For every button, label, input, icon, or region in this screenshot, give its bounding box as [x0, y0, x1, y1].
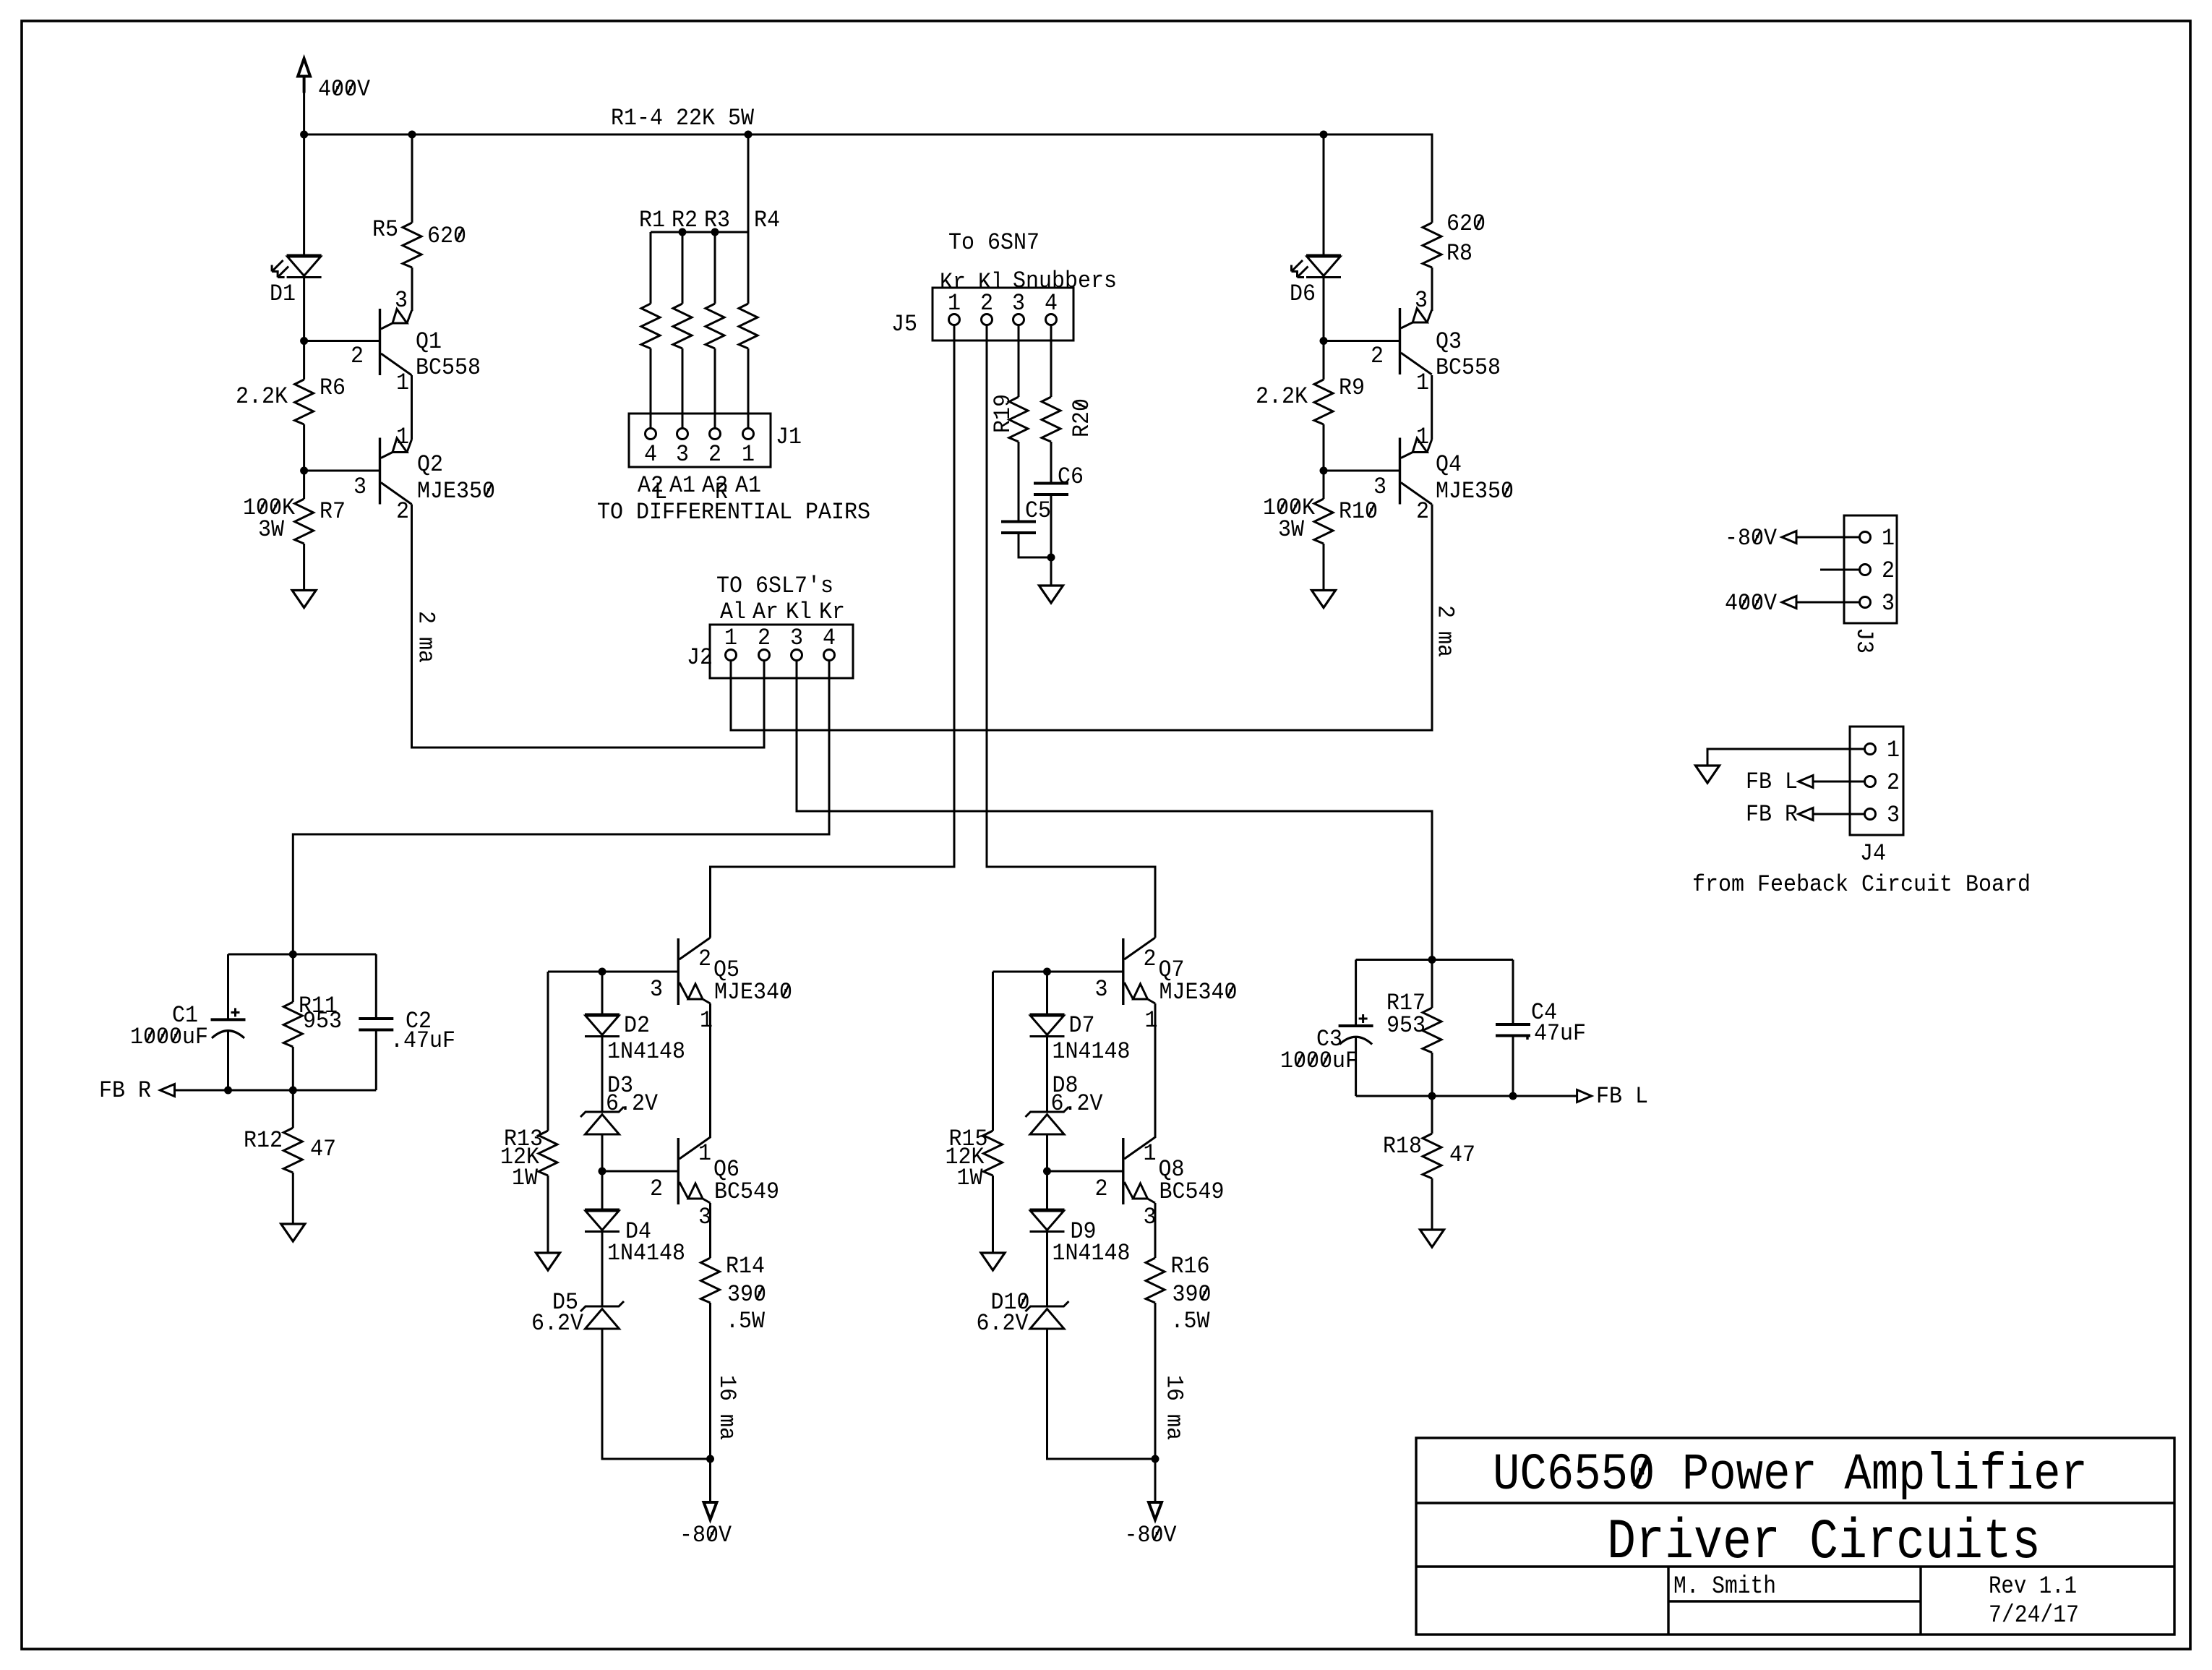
node rail-R3: [711, 228, 719, 236]
svg-text:2: 2: [698, 946, 711, 972]
svg-text:1W: 1W: [512, 1165, 539, 1191]
D7 designator: [1069, 1012, 1095, 1039]
resistor R13 with leads: [539, 972, 557, 1253]
wire R10-ground: [1323, 544, 1325, 591]
R7 value 100K: [243, 494, 296, 521]
wire R6 bottom lead: [303, 424, 305, 471]
wire R7-ground: [303, 544, 305, 591]
R6 designator: [320, 374, 346, 401]
svg-text:R4: R4: [754, 207, 780, 234]
svg-text:6.2V: 6.2V: [977, 1310, 1029, 1337]
J3 pin number 1: [1882, 525, 1895, 552]
svg-text:.47uF: .47uF: [390, 1027, 455, 1054]
wire +400V bus: [304, 93, 1432, 223]
svg-text:2: 2: [1144, 946, 1157, 972]
16 ma label left: [713, 1375, 740, 1440]
svg-text:1N4148: 1N4148: [607, 1240, 685, 1267]
Q8 pin 3: [1144, 1204, 1157, 1230]
R12 value 47: [310, 1136, 336, 1162]
svg-text:2: 2: [1095, 1176, 1108, 1202]
node Q5 base: [599, 968, 606, 976]
J1 pin number 3: [676, 441, 689, 468]
transistor Q7: [1123, 938, 1155, 1005]
FB R arrow: [160, 1084, 175, 1097]
ground below R15: [981, 1253, 1005, 1270]
Q6 pin 3: [698, 1204, 711, 1230]
R8 designator: [1446, 240, 1472, 267]
J3 pin number 3: [1882, 590, 1895, 617]
svg-text:2: 2: [1887, 769, 1900, 796]
svg-text:R7: R7: [320, 498, 346, 525]
svg-text:R16: R16: [1171, 1253, 1210, 1280]
wire D3-junction: [601, 1134, 604, 1171]
R14 wattage .5W: [726, 1308, 766, 1335]
node bus-D6: [1320, 131, 1328, 139]
wire C4 bottom lead: [1512, 1036, 1514, 1097]
svg-text:D6: D6: [1290, 281, 1316, 307]
svg-text:.5W: .5W: [726, 1308, 766, 1335]
FB L net label: [1596, 1083, 1648, 1110]
wire R10 top lead: [1323, 471, 1325, 499]
Q3 designator: [1436, 328, 1462, 355]
capacitor C1 polarized: [211, 1008, 246, 1038]
svg-text:Snubbers: Snubbers: [1013, 267, 1117, 294]
Q4 pin 2: [1416, 498, 1429, 525]
svg-text:4: 4: [823, 625, 836, 651]
wire C6 bottom: [1050, 494, 1053, 586]
Q7 part MJE340: [1159, 979, 1238, 1006]
J2 pin number 1: [724, 625, 737, 651]
R16 wattage .5W: [1171, 1308, 1211, 1335]
J5 designator: [891, 311, 917, 338]
svg-text:47: 47: [310, 1136, 336, 1162]
Q5 pin 1: [700, 1007, 713, 1034]
D3 designator: [607, 1072, 633, 1099]
D10 value 6.2V: [977, 1310, 1029, 1337]
2 ma label left: [413, 611, 440, 663]
svg-text:3: 3: [650, 976, 663, 1003]
wire R9 top lead: [1323, 341, 1325, 380]
svg-text:J2: J2: [687, 644, 713, 671]
R16 value 390: [1173, 1281, 1212, 1308]
-80V net label: [1725, 525, 1778, 552]
wire C4 top lead: [1512, 960, 1514, 1025]
Q3 part BC558: [1436, 354, 1501, 381]
svg-text:R3: R3: [704, 207, 730, 234]
wire Q3 collector - Q4 emitter: [1431, 375, 1433, 440]
svg-text:2.2K: 2.2K: [1256, 383, 1308, 410]
svg-text:R19: R19: [990, 394, 1016, 433]
wire R7 top lead: [303, 471, 305, 499]
R4 designator: [754, 207, 780, 234]
svg-text:2.2K: 2.2K: [236, 383, 288, 410]
C5 designator: [1025, 497, 1051, 524]
zener D3: [580, 1107, 624, 1134]
J1 R label: [715, 479, 728, 505]
J4 pin number 2: [1887, 769, 1900, 796]
node rail-R2: [679, 228, 687, 236]
Q5 part MJE340: [714, 979, 792, 1006]
svg-text:953: 953: [303, 1008, 342, 1035]
node C4-rail: [1509, 1092, 1517, 1100]
svg-text:16 ma: 16 ma: [1161, 1375, 1188, 1440]
LED D1: [272, 255, 322, 278]
transistor Q8: [1123, 1137, 1155, 1204]
title block frame: [1416, 1438, 2174, 1635]
svg-text:3W: 3W: [258, 516, 285, 543]
R20 designator: [1068, 398, 1095, 437]
R9 designator: [1339, 374, 1365, 401]
-80V arrow at J3 pin1: [1782, 531, 1860, 544]
resistor R6: [295, 380, 314, 424]
R6 value 2.2K: [236, 383, 288, 410]
wire J3 pin2 stub: [1820, 569, 1860, 571]
D5 designator: [552, 1289, 578, 1316]
R10 designator: [1339, 498, 1378, 525]
diode D7: [1030, 1014, 1065, 1037]
J1 pin number 4: [644, 441, 657, 468]
C4 designator: [1531, 999, 1557, 1026]
svg-text:J3: J3: [1851, 628, 1877, 654]
J2 designator: [687, 644, 713, 671]
R19 designator: [990, 394, 1016, 433]
svg-text:Rev 1.1: Rev 1.1: [1989, 1573, 2077, 1601]
C1 value 1000uF: [130, 1024, 208, 1050]
svg-text:A1: A1: [669, 472, 695, 499]
J1 L label: [654, 479, 667, 505]
D10 designator: [991, 1289, 1030, 1316]
connector J2: [710, 625, 853, 678]
FB R net label: [1746, 801, 1798, 828]
svg-text:620: 620: [1446, 210, 1486, 237]
svg-text:R8: R8: [1446, 240, 1472, 267]
svg-text:UC6550 Power Amplifier: UC6550 Power Amplifier: [1493, 1447, 2088, 1504]
ground below R7: [292, 591, 316, 608]
R13 designator: [504, 1126, 543, 1152]
Q2 pin 3: [353, 474, 366, 500]
FB L arrow: [1577, 1090, 1592, 1102]
D6 designator: [1290, 281, 1316, 307]
svg-text:2: 2: [1882, 557, 1895, 584]
resistor R12: [283, 1128, 302, 1173]
wire Q2 base: [304, 470, 379, 472]
wire C1 bottom lead: [227, 1029, 229, 1090]
Q6 part BC549: [714, 1178, 779, 1205]
svg-text:To 6SN7: To 6SN7: [948, 229, 1039, 256]
svg-text:2 ma: 2 ma: [413, 611, 440, 663]
svg-text:4: 4: [1045, 290, 1058, 317]
ground below snubbers: [1039, 586, 1063, 603]
wire Q5 emitter - Q6 collector: [709, 1003, 711, 1138]
resistor R17: [1423, 1008, 1441, 1053]
svg-text:3: 3: [353, 474, 366, 500]
svg-text:R12: R12: [244, 1127, 283, 1154]
svg-text:A1: A1: [735, 472, 761, 499]
wire J2 pin3 to FB-L network: [797, 661, 1432, 960]
resistor R4: [739, 232, 758, 429]
svg-text:R1: R1: [639, 207, 665, 234]
svg-text:R2: R2: [672, 207, 698, 234]
C3 designator: [1316, 1026, 1342, 1053]
wire C3 bottom lead: [1355, 1036, 1357, 1096]
wire bus to R-rail: [747, 134, 750, 232]
node bus-R5: [408, 131, 416, 139]
svg-text:TO DIFFERENTIAL PAIRS: TO DIFFERENTIAL PAIRS: [597, 499, 870, 526]
wire D4-D5: [601, 1232, 604, 1307]
svg-text:Q2: Q2: [417, 451, 443, 478]
capacitor C5: [1001, 522, 1036, 534]
zener D5: [580, 1301, 624, 1329]
svg-text:400V: 400V: [1725, 590, 1778, 617]
svg-text:2 ma: 2 ma: [1432, 605, 1459, 657]
svg-text:FB L: FB L: [1596, 1083, 1648, 1110]
C6 designator: [1058, 463, 1084, 490]
Q8 pin 2: [1095, 1176, 1108, 1202]
svg-text:6.2V: 6.2V: [531, 1310, 584, 1337]
svg-text:Q4: Q4: [1436, 451, 1462, 478]
R13 value 12K: [500, 1144, 540, 1170]
wire Q3 base: [1324, 340, 1399, 342]
C2 designator: [406, 1008, 432, 1035]
svg-text:FB R: FB R: [99, 1077, 151, 1104]
400V net label at J3: [1725, 590, 1778, 617]
wire R19-C5: [1018, 442, 1020, 522]
svg-text:2: 2: [708, 441, 721, 468]
wire D8-junction: [1046, 1134, 1048, 1171]
wire C2 bottom lead: [375, 1030, 377, 1091]
R18 designator: [1383, 1133, 1422, 1160]
wire R11 bottom lead: [292, 1047, 294, 1090]
wire R1-R4 rail: [651, 231, 748, 234]
wire J5 pin2 to Q7 collector: [987, 325, 1155, 938]
R17 designator: [1386, 990, 1426, 1016]
svg-text:2: 2: [758, 625, 771, 651]
wire J5 pin3 to R19: [1018, 325, 1020, 398]
resistor R1: [641, 232, 660, 429]
J3 pin number 2: [1882, 557, 1895, 584]
R5 value 620: [427, 223, 466, 249]
svg-text:Driver Circuits: Driver Circuits: [1607, 1511, 2041, 1575]
svg-text:1: 1: [396, 369, 409, 396]
wire D2 top lead: [601, 972, 604, 1014]
svg-text:3: 3: [1415, 287, 1428, 314]
wire R18 top lead: [1431, 1096, 1433, 1134]
transistor Q4: [1400, 438, 1432, 505]
R13 wattage 1W: [512, 1165, 539, 1191]
J4 designator: [1860, 840, 1886, 867]
J5 pin number 2: [980, 290, 993, 317]
wire R18-ground: [1431, 1178, 1433, 1230]
svg-text:390: 390: [727, 1281, 766, 1308]
Q1 pin 3: [395, 287, 408, 314]
R3 designator: [704, 207, 730, 234]
wire FB-L top rail: [1356, 959, 1513, 961]
R11 designator: [299, 993, 338, 1019]
wire FB-R top rail: [228, 954, 377, 956]
wire Q5 base rail: [548, 971, 677, 973]
svg-text:2: 2: [1416, 498, 1429, 525]
R10 wattage 3W: [1278, 516, 1305, 543]
svg-text:C6: C6: [1058, 463, 1084, 490]
Q4 part MJE350: [1436, 478, 1514, 505]
Q1 pin 2: [351, 343, 364, 369]
Q7 designator: [1159, 956, 1185, 983]
node FB-R top: [289, 951, 297, 959]
transistor Q3: [1400, 308, 1432, 374]
D1 designator: [270, 281, 296, 307]
svg-text:3: 3: [676, 441, 689, 468]
svg-text:1: 1: [396, 424, 409, 450]
resistor R2: [673, 232, 692, 429]
svg-text:Ar: Ar: [753, 599, 779, 625]
Q3 pin 1: [1416, 369, 1429, 396]
wire D1 top lead: [303, 134, 305, 255]
J3 designator: [1851, 628, 1877, 654]
node C1-rail: [224, 1087, 232, 1095]
R14 designator: [726, 1253, 765, 1280]
wire C3 top lead: [1355, 960, 1357, 1027]
D5 value 6.2V: [531, 1310, 584, 1337]
wire C1 top lead: [227, 954, 229, 1019]
svg-text:-80V: -80V: [680, 1522, 732, 1549]
resistor R7: [295, 499, 314, 544]
Q8 designator: [1159, 1156, 1185, 1183]
zener D8: [1026, 1107, 1069, 1134]
Q8 part BC549: [1159, 1178, 1225, 1205]
wire D9 top lead: [1046, 1171, 1048, 1209]
svg-text:R18: R18: [1383, 1133, 1422, 1160]
wire R12 top lead: [292, 1090, 294, 1128]
wire R20-C6: [1050, 442, 1053, 484]
transistor Q6: [678, 1137, 710, 1204]
diode D9: [1030, 1209, 1065, 1232]
svg-text:Q3: Q3: [1436, 328, 1462, 355]
R1-4 value label: [611, 105, 755, 132]
svg-text:MJE350: MJE350: [1436, 478, 1514, 505]
svg-text:BC558: BC558: [1436, 354, 1501, 381]
wire R8-Q3 emitter: [1431, 267, 1433, 311]
Q2 pin 2: [396, 498, 409, 525]
node Q3 base: [1320, 337, 1328, 345]
capacitor C2: [359, 1019, 393, 1030]
C4 value .47uF: [1521, 1020, 1586, 1047]
J5 pin number 4: [1045, 290, 1058, 317]
wire Q6 base rail: [602, 1170, 677, 1173]
To 6SN7 label: [948, 229, 1039, 256]
400V arrow at J3 pin3: [1782, 596, 1860, 609]
svg-text:1: 1: [948, 290, 961, 317]
-80V label right: [1125, 1522, 1178, 1549]
J5 pin number 1: [948, 290, 961, 317]
wire R9 bottom lead: [1323, 424, 1325, 471]
node R18-rail: [1428, 1092, 1436, 1100]
node Q6 base: [599, 1168, 606, 1176]
svg-text:R10: R10: [1339, 498, 1378, 525]
Q5 designator: [713, 956, 740, 983]
svg-text:3: 3: [790, 625, 803, 651]
J4 pin number 3: [1887, 802, 1900, 828]
-80V power symbol left: [704, 1502, 717, 1520]
Snubbers label: [1013, 267, 1117, 294]
wire D9-D10: [1046, 1232, 1048, 1307]
svg-text:3W: 3W: [1278, 516, 1305, 543]
D2 designator: [624, 1012, 650, 1039]
wire R6 top lead: [303, 341, 305, 380]
resistor R10: [1314, 499, 1333, 544]
Q1 part BC558: [416, 354, 481, 381]
svg-text:1: 1: [1882, 525, 1895, 552]
node bus-R14wire: [745, 131, 753, 139]
transistor Q5: [678, 938, 710, 1005]
capacitor C4: [1496, 1024, 1530, 1036]
svg-text:BC549: BC549: [714, 1178, 779, 1205]
-80V label left: [680, 1522, 732, 1549]
wire D7-D8: [1046, 1037, 1048, 1113]
node Q2 base: [300, 467, 308, 475]
svg-text:BC558: BC558: [416, 354, 481, 381]
J1 pin number 2: [708, 441, 721, 468]
svg-text:1000uF: 1000uF: [130, 1024, 208, 1050]
svg-text:3: 3: [1373, 474, 1386, 500]
R15 wattage 1W: [957, 1165, 984, 1191]
wire Q1 collector - Q2 emitter: [411, 375, 413, 440]
wire R5-Q1 emitter: [411, 267, 413, 311]
R11 value 953: [303, 1008, 342, 1035]
node Q8 base: [1043, 1168, 1051, 1176]
wire Q2 collector to J2 pin2: [412, 505, 765, 748]
node snubber ground: [1047, 554, 1055, 562]
svg-text:MJE350: MJE350: [417, 478, 495, 505]
transistor Q2: [380, 438, 412, 505]
Q6 pin 1: [698, 1140, 711, 1167]
from Feeback Circuit Board label: [1692, 871, 2031, 898]
wire R17 top lead: [1431, 960, 1433, 1009]
svg-text:J4: J4: [1860, 840, 1886, 867]
R2 designator: [672, 207, 698, 234]
revision Rev 1.1: [1989, 1573, 2077, 1601]
svg-text:Q1: Q1: [416, 328, 442, 355]
Q8 pin 1: [1144, 1140, 1157, 1167]
svg-text:.47uF: .47uF: [1521, 1020, 1586, 1047]
Q4 designator: [1436, 451, 1462, 478]
svg-text:390: 390: [1173, 1281, 1212, 1308]
Q3 pin 2: [1371, 343, 1384, 369]
wire R12-ground: [292, 1173, 294, 1224]
svg-text:-80V: -80V: [1125, 1522, 1178, 1549]
C2 value .47uF: [390, 1027, 455, 1054]
svg-text:3: 3: [1012, 290, 1025, 317]
wire Q6 emitter - R14: [709, 1203, 711, 1258]
svg-text:M. Smith: M. Smith: [1673, 1573, 1776, 1601]
svg-text:1: 1: [1887, 737, 1900, 763]
J5 pin name Kr: [940, 269, 966, 296]
svg-text:2: 2: [650, 1176, 663, 1202]
node -80V right: [1152, 1455, 1159, 1463]
wire D1-base junction: [303, 278, 305, 341]
svg-text:.5W: .5W: [1171, 1308, 1211, 1335]
connector J1: [629, 414, 771, 467]
R7 designator: [320, 498, 346, 525]
J2 pin names Al Ar Kl Kr: [720, 599, 845, 625]
wire C5 bottom: [1019, 533, 1051, 557]
wire -80V right stub: [1154, 1459, 1157, 1502]
resistor R14: [701, 1258, 720, 1303]
Q7 pin 1: [1145, 1007, 1158, 1034]
connector J4: [1850, 727, 1903, 835]
D9 designator: [1071, 1218, 1097, 1245]
svg-text:MJE340: MJE340: [714, 979, 792, 1006]
svg-text:2: 2: [351, 343, 364, 369]
